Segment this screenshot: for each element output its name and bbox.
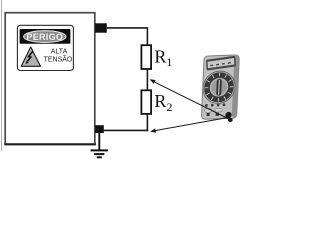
ground bar 3: [97, 156, 102, 158]
danger sign plate: [17, 25, 73, 70]
arrowhead at bottom node: [150, 128, 156, 132]
probe lead to R1-R2 node: [151, 80, 230, 119]
multimeter: [201, 55, 239, 119]
wire from top terminal to R1: [107, 28, 148, 46]
panel bottom edge: [4, 143, 96, 145]
ground bar 1: [91, 149, 108, 151]
bottom wire to bushing: [104, 129, 149, 131]
svg-text:ALTA: ALTA: [51, 49, 68, 56]
resistor R2: [141, 90, 151, 114]
ground bar 2: [94, 153, 104, 155]
svg-text:TENSÃO: TENSÃO: [44, 54, 73, 63]
bushing terminal top: [95, 23, 107, 32]
danger sign header band: [20, 29, 71, 44]
svg-text:PERIGO: PERIGO: [26, 32, 63, 42]
lightning bolt: [27, 51, 32, 61]
bushing terminal bottom: [95, 125, 104, 133]
ground stem: [98, 133, 100, 150]
svg-text:R2: R2: [154, 91, 172, 114]
arrowhead at R1-R2 node: [150, 79, 156, 84]
wire R2 down to bottom wire: [146, 114, 148, 131]
probe lead to bottom node: [154, 118, 229, 131]
multimeter probe terminal: [228, 118, 233, 122]
svg-text:R1: R1: [154, 47, 172, 70]
PERIGO oval: [24, 31, 66, 43]
resistor R1: [141, 45, 151, 69]
warning triangle: [21, 47, 40, 66]
panel (high-voltage cabinet): [5, 13, 95, 145]
wire R1 to R2: [146, 69, 148, 90]
